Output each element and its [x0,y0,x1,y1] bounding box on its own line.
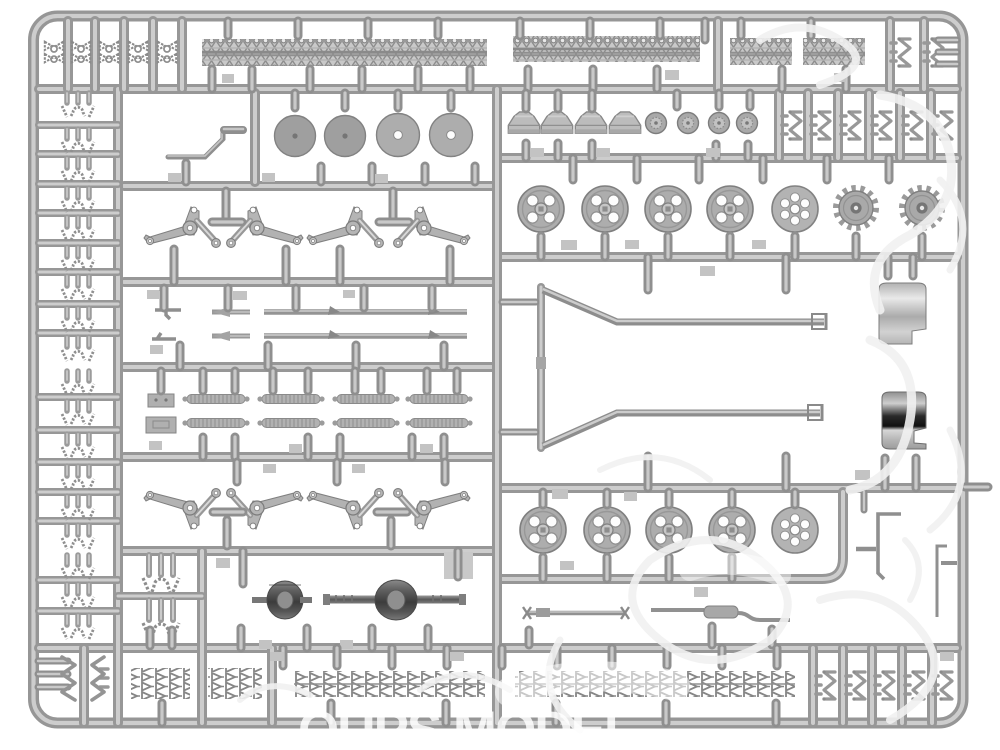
vertical runner x272 bottom [267,648,277,723]
S spring clips row2 right [782,110,801,140]
peg row2 left [182,163,191,182]
gate tab [216,558,230,568]
bottom S-cell divider x843 [838,648,848,723]
idler wheel 7-hole R2-5 [772,507,818,553]
drive sprocket 1 [837,189,876,228]
suspension arm group 4a [307,489,383,529]
road wheel R2-4 [709,507,755,553]
gate tab [855,470,870,480]
frame rail top diagonal [543,289,824,322]
row2 left pegs [291,93,300,108]
gate tab [222,74,234,83]
track strip short 2 [803,38,865,65]
chevron track strip left [294,671,485,697]
clip part second column cell 1 [143,555,179,592]
bottom S-cell divider x932 [927,648,937,723]
gate tab [552,489,568,499]
track strip top right long [513,36,700,62]
ladder frame stub top [502,299,536,306]
axle 2 long shaft [323,596,466,604]
row2 S-cell divider x779 [774,93,784,158]
row2 S-cell divider x869 [864,93,874,158]
gate tab [340,640,353,649]
runner right y158 [497,153,957,163]
prong part bottom left [38,658,68,665]
row4 pegs [160,288,169,308]
road wheel R1-3 [645,186,691,232]
gate tab [625,240,639,249]
top row divider x890 [885,21,895,89]
gate tab [259,640,272,649]
chevron cluster 2 [208,668,262,699]
gate tab [560,561,574,570]
clip part second column cell 2 [143,600,179,637]
gate tab [694,587,708,597]
pegs below second clip [146,630,155,646]
road wheel R1-1 [518,186,564,232]
pointed rod 2 [212,334,250,339]
row2 S-cell divider x900 [895,93,905,158]
runner top horizontal y89 [39,84,957,94]
road wheel dark 2 [325,116,366,157]
top row divider x924 [919,21,929,89]
gate tab [168,173,181,182]
gate tab [262,173,275,182]
gate tab [352,464,365,473]
gate tab [624,492,637,501]
top row divider x95 [90,21,100,89]
suspension arm group 3a [144,489,220,529]
gate tab [752,240,766,249]
gate tab [700,266,715,276]
dark fender part 2 [882,392,926,449]
small bracket part b [152,333,176,339]
frame rail top end bracket [812,314,826,329]
top row divider x182 [177,21,187,89]
runner left y457 [124,452,497,462]
gate tab [420,444,433,453]
track end pieces top row small cells [45,42,63,62]
svg-text:OUPS MODEL: OUPS MODEL [298,701,635,750]
runner right J-curve y579 [497,492,843,579]
small bracket part a [155,306,181,319]
road wheel R2-3 [646,507,692,553]
gate tab [263,464,276,473]
runner left y186 [124,181,497,191]
peg top row gap [701,21,710,40]
second column divider y596 [118,592,202,600]
row6 right pegs [708,626,717,645]
bottom S-cell divider x872 [867,648,877,723]
T stubs row6 [223,520,232,546]
road wheel R1-2 [582,186,628,232]
gate tab [665,70,679,80]
frame rail bottom diagonal [543,412,820,446]
vertical runner x202 [197,551,207,723]
small part with prongs far top right [924,37,943,67]
gate tab [150,345,163,354]
leaf springs row [182,395,249,404]
bottom S clips [816,670,835,700]
gate tab [375,174,388,183]
gate tab [596,148,610,157]
idler wheel 7-hole R1-5 [772,186,818,232]
gate tab [147,290,161,299]
gate tab [561,240,577,250]
runner bottom horizontal y648 [39,643,957,653]
vertical runner main divider x497 [492,89,502,723]
row5 pegs [157,371,166,391]
top row divider x68 [63,21,73,89]
gate tab [834,73,846,82]
top row divider x153 [148,21,158,89]
row5 right pegs [539,492,548,505]
small box part b [146,417,176,433]
S clip top right cell [891,37,910,67]
row2 S-cell divider x838 [833,93,843,158]
gate tab [706,148,720,157]
row2 right pegs [522,93,531,109]
row4 right pegs [644,257,653,290]
chevron cluster 1 [131,668,190,699]
tie rod with forks [527,611,626,616]
runner left y367 [124,362,497,372]
row2 S-cell divider x931 [926,93,936,158]
gate tab [270,652,284,661]
gate tab [530,148,544,157]
row7 pegs [239,551,248,584]
rod with muffler [651,608,704,612]
long axle rod 2 [264,333,467,339]
gate tab [450,652,464,661]
differential axle 2 [375,580,417,620]
vertical runner x118 left column edge [113,89,123,723]
top row divider x718 [713,21,723,89]
prong 1 [938,37,957,44]
frame rail bottom end bracket [808,405,822,420]
bottom S-cell divider x813 [808,648,818,723]
road wheel light 4 [430,114,473,157]
gate tab [940,652,954,661]
dark fender part 1 [879,283,926,344]
road wheel R2-2 [584,507,630,553]
leaf-spring clips W parts in left column [62,93,94,117]
runner right y488 [497,483,957,493]
ladder frame stub bottom [502,429,536,436]
gate tab [148,291,160,299]
suspension arm group 2a [307,207,383,247]
thin L rod right [937,546,957,617]
drive sprocket 2 [903,189,942,228]
bottom S-cell divider x902 [897,648,907,723]
road wheel light 3 [377,114,420,157]
row3 right pegs [569,158,578,180]
track strip short 1 [730,38,792,65]
road wheel dark 1 [275,116,316,157]
runner left y551 [121,546,497,556]
axle shaft stub left [252,597,272,603]
pointed rod 1 [212,310,250,315]
row2 S-cell divider x808 [803,93,813,158]
zigzag part 2 bottom left [100,669,108,687]
bottom row pegs [279,648,288,666]
washers row2 [646,113,667,134]
suspension arm group 4b [394,489,470,529]
peg above pipe [861,492,868,510]
small box part a [148,394,174,407]
gate tab [149,441,162,450]
suspension arm group 1b (mirror) [227,207,303,247]
suspension arm group 1a [144,207,220,247]
watermark swirl logo [240,28,963,731]
track strip top left long [202,39,487,66]
runner left y282 [124,277,497,287]
chevron track strip right [515,671,795,697]
watermark white wash over strip [510,676,675,692]
zigzag clip bottom left [62,657,75,700]
top row sprue pegs [224,21,233,36]
bent pipe part right [856,514,901,579]
gate tab [233,291,247,300]
pale plate part [444,552,473,579]
runner right y257 [497,252,957,262]
crossmember nub [536,357,546,369]
fender parts row2 [508,112,539,133]
differential axle 1 [267,581,303,619]
gate tab [343,290,355,298]
long axle rod 1 [264,309,467,315]
road wheel R2-1 [520,507,566,553]
left column cell dividers [39,121,118,129]
prong 2 [938,49,957,56]
suspension arm group 2b (mirror) [394,207,470,247]
frame side tab right [965,483,988,492]
top row divider x124 [119,21,129,89]
ladder frame vertical member [537,287,545,448]
road wheel R1-4 [707,186,753,232]
gate tab [289,444,302,453]
suspension arm group 3b [227,489,303,529]
vertical runner x84 bottom [79,648,89,723]
prong 3 [938,61,957,68]
T stub row3 [222,191,231,218]
bent pipe part row2 left [168,129,243,157]
vertical runner x255 row2 left [250,93,260,182]
